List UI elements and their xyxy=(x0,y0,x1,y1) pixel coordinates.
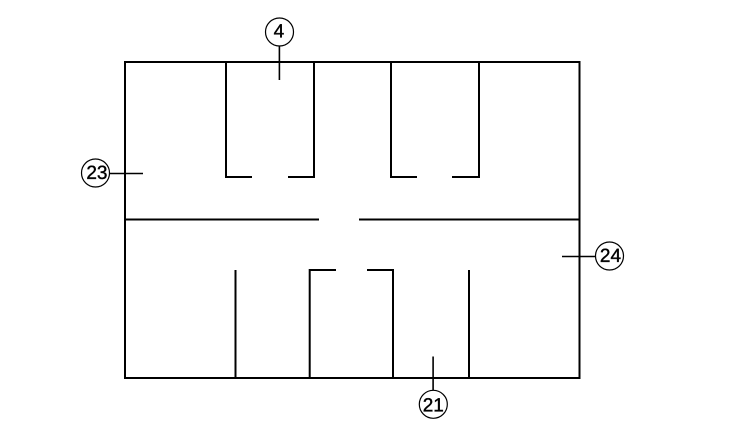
callout 21 leader line xyxy=(432,357,434,391)
callout 23 leader line xyxy=(110,173,144,175)
top room 2 bottom wall right segment xyxy=(452,176,480,178)
top room 2 left wall xyxy=(390,62,392,178)
top room 2 bottom wall left segment xyxy=(390,176,417,178)
callout 4 leader line xyxy=(278,46,280,80)
callout 24 leader line xyxy=(562,256,596,258)
bottom room left wall xyxy=(309,269,311,378)
callout 4 circle xyxy=(266,18,294,46)
bottom room top wall right segment xyxy=(367,269,394,271)
bottom partition wall 2 xyxy=(468,270,470,378)
bottom room right wall xyxy=(392,269,394,378)
bottom room top wall left segment xyxy=(309,269,336,271)
top room 2 right wall xyxy=(478,62,480,178)
svg-text:21: 21 xyxy=(423,395,444,416)
top room 1 bottom wall right segment xyxy=(288,176,315,178)
svg-text:23: 23 xyxy=(86,163,107,184)
bottom partition wall 1 xyxy=(235,270,237,378)
svg-text:4: 4 xyxy=(274,21,285,42)
corridor wall left segment xyxy=(125,219,319,221)
top room 1 bottom wall left segment xyxy=(225,176,252,178)
outer wall rectangle xyxy=(125,62,580,378)
callout 21 circle xyxy=(419,390,447,418)
top room 1 left wall xyxy=(225,62,227,178)
corridor wall right segment xyxy=(359,219,580,221)
callout 23 circle xyxy=(82,159,110,187)
callout 24 circle xyxy=(596,242,624,270)
svg-text:24: 24 xyxy=(600,246,622,267)
top room 1 right wall xyxy=(313,62,315,178)
